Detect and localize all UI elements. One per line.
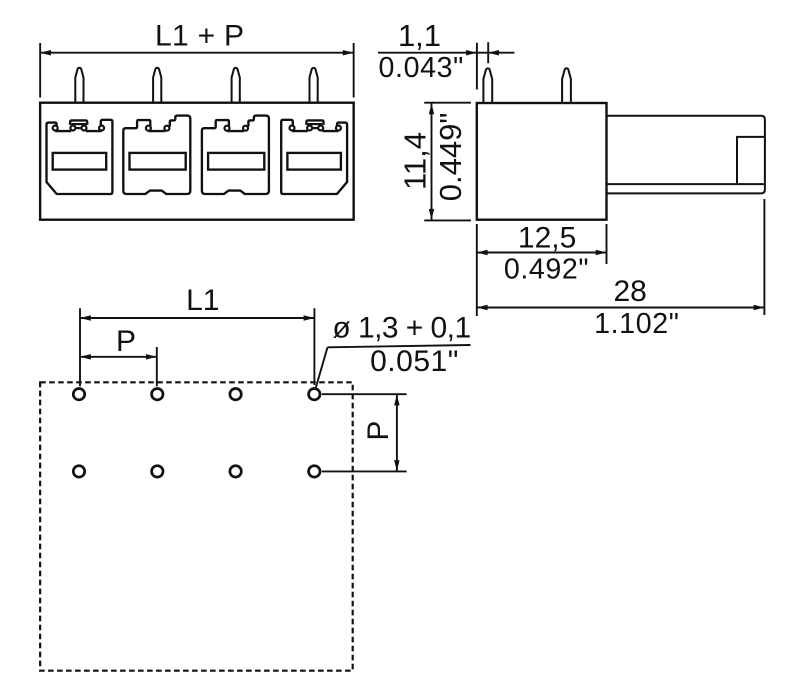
svg-text:1.102": 1.102" xyxy=(594,308,679,340)
svg-text:28: 28 xyxy=(614,275,647,308)
svg-text:12,5: 12,5 xyxy=(518,221,576,254)
svg-text:L1 + P: L1 + P xyxy=(155,20,244,53)
svg-text:0.492": 0.492" xyxy=(504,253,589,285)
svg-text:11,4: 11,4 xyxy=(397,132,432,190)
svg-text:0.449": 0.449" xyxy=(433,113,468,202)
svg-text:1,1: 1,1 xyxy=(398,18,441,53)
svg-text:0.043": 0.043" xyxy=(379,52,464,84)
svg-text:P: P xyxy=(116,325,136,358)
svg-text:L1: L1 xyxy=(186,284,219,317)
svg-text:P: P xyxy=(362,421,395,441)
svg-text:ø 1,3 + 0,1: ø 1,3 + 0,1 xyxy=(332,312,470,345)
svg-text:0.051": 0.051" xyxy=(370,345,459,378)
